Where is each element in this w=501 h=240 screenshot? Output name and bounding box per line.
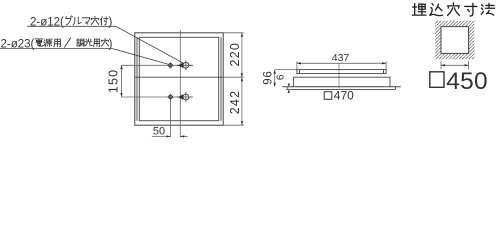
extension line top edge to right dim <box>223 32 243 34</box>
437 dim line <box>297 62 386 64</box>
dim 50 line right part with arrow <box>180 135 188 137</box>
small hole 2 cross <box>167 94 174 101</box>
dim 50 line left part with arrow <box>152 135 171 137</box>
cut-out inner square <box>441 27 469 54</box>
dim 96 arrow top <box>274 70 276 74</box>
437 dim arrow left <box>297 62 301 64</box>
svg-text:437: 437 <box>332 52 350 64</box>
svg-text:2-ø23(: 2-ø23( <box>1 38 35 50</box>
450 dim arrow right <box>465 64 469 66</box>
svg-text:6: 6 <box>275 74 286 80</box>
svg-text:450: 450 <box>446 68 487 95</box>
side view □470 label <box>324 92 332 100</box>
hole column centerline B x=180.3 <box>179 30 181 138</box>
svg-text:220: 220 <box>228 42 242 66</box>
dalma hole 2 wedge <box>178 94 183 99</box>
panel bottom <box>288 87 396 90</box>
svg-text:): ) <box>109 38 113 50</box>
450 dim arrow left <box>441 64 445 66</box>
450 dim line <box>441 64 469 66</box>
437 extension left <box>296 61 298 69</box>
leader line for 2-ø12 label <box>27 26 184 63</box>
ceiling line <box>282 86 401 88</box>
450 dim extension right <box>468 61 470 69</box>
dim 6 outside arrows <box>288 83 290 93</box>
dim 150 line <box>121 65 123 97</box>
dalma hole 2 circle <box>183 94 189 100</box>
chain dim arrow bottom (242) <box>241 121 243 125</box>
dalma hole 1 wedge <box>178 63 183 68</box>
right chain dim line <box>241 33 243 125</box>
plan view inner square <box>139 37 218 120</box>
body box <box>294 77 390 87</box>
bar end cap left <box>299 70 301 74</box>
plan view middle horizontal rail <box>135 76 223 78</box>
side view center line <box>338 63 340 88</box>
extension line middle rail to right dim <box>223 76 243 78</box>
dim 96 line <box>274 70 276 87</box>
dalma hole 1 circle <box>183 62 189 68</box>
small hole 1 cross <box>167 62 174 69</box>
leader line for 2-ø23 label <box>0 49 169 65</box>
dim 96 ext tick <box>275 69 297 71</box>
svg-text:): ) <box>109 16 113 28</box>
extension line bottom edge to right dim <box>223 124 244 126</box>
bar end cap right <box>383 70 385 74</box>
dim 6 ext tick <box>286 89 292 91</box>
□450 square symbol <box>430 72 444 88</box>
437 extension right <box>385 61 387 73</box>
plan view left rail line <box>136 37 138 120</box>
svg-text:150: 150 <box>107 69 121 93</box>
450 dim extension left <box>440 61 442 69</box>
hole row line 1 <box>122 64 193 66</box>
small hole 1 circle <box>169 64 172 67</box>
dalma hole 2 cross <box>177 92 193 102</box>
plan view outer square <box>135 33 223 125</box>
dim 150 arrow up <box>120 65 122 69</box>
svg-text:2-ø12(: 2-ø12( <box>30 16 64 28</box>
plan view right rail line <box>220 37 222 120</box>
hatched ceiling band <box>435 21 474 60</box>
svg-text:96: 96 <box>263 70 275 84</box>
top bar (housing) <box>297 70 386 74</box>
hole column centerline A x=170.5 (below lower hole only) <box>170 100 172 137</box>
dim 96 arrow bottom <box>274 83 276 87</box>
svg-text:50: 50 <box>153 126 165 138</box>
chain dim arrow top (220) <box>241 33 243 37</box>
chain dim arrows middle <box>241 73 243 77</box>
437 dim arrow right <box>382 62 386 64</box>
title 埋込穴寸法 <box>412 3 494 16</box>
dim 150 arrow down <box>120 93 122 97</box>
small hole 2 circle <box>169 95 172 98</box>
hole row line 2 <box>122 96 193 98</box>
svg-text:470: 470 <box>334 89 354 103</box>
svg-text:242: 242 <box>228 90 242 114</box>
dalma hole 1 cross <box>177 60 193 70</box>
